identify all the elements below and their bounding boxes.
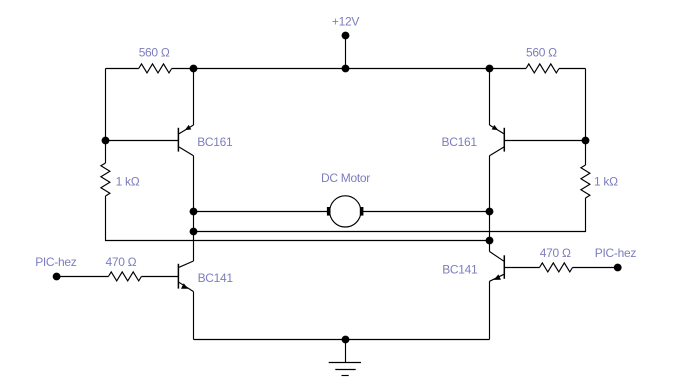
wire top rail right segment — [559, 68, 586, 70]
svg-text:BC161: BC161 — [442, 135, 478, 149]
junction top rail left (Q1 emitter node) — [190, 65, 197, 72]
junction y231 left — [190, 228, 197, 235]
wire cross line y240 to right motor node — [194, 240, 490, 242]
resistor R3 1 kohm (left, vertical) — [101, 163, 140, 196]
resistor R5 470 ohm (bottom-left) — [106, 255, 142, 281]
wire cross line y231 to left motor node — [194, 231, 490, 233]
junction node left base — [102, 137, 109, 144]
+12V supply terminal — [332, 15, 359, 39]
wire left column to R3 — [105, 141, 107, 164]
svg-text:BC141: BC141 — [198, 271, 234, 285]
junction top rail right (Q2 emitter node) — [486, 65, 493, 72]
wire +12V stub — [345, 36, 347, 69]
wire left column below R3 — [106, 196, 194, 241]
wire PIC-hez right to R6 — [573, 267, 618, 269]
wire right column to R4 — [585, 141, 587, 166]
svg-text:PIC-hez: PIC-hez — [35, 255, 77, 269]
svg-text:470 Ω: 470 Ω — [106, 255, 137, 269]
svg-text:BC161: BC161 — [197, 135, 233, 149]
svg-text:+12V: +12V — [332, 15, 359, 29]
wire right mid vertical (motor node to Q4 collector) — [489, 212, 491, 252]
resistor R2 560 ohm (top-right) — [526, 46, 559, 73]
wire right column upper — [585, 69, 587, 141]
resistor R1 560 ohm (top-left) — [139, 46, 172, 73]
ground — [329, 340, 361, 376]
junction bottom rail at ground — [342, 336, 349, 343]
svg-text:560 Ω: 560 Ω — [139, 46, 170, 60]
wire R6 to Q4 base — [504, 267, 539, 269]
wire left column upper — [105, 69, 107, 141]
svg-text:BC141: BC141 — [442, 263, 478, 277]
svg-text:1 kΩ: 1 kΩ — [116, 174, 140, 188]
junction on top rail at +12V — [342, 65, 349, 72]
junction motor line right — [486, 208, 493, 215]
wire bottom rail — [194, 339, 490, 341]
DC motor M1 — [194, 171, 490, 227]
junction y240 right — [486, 237, 493, 244]
transistor Q3 BC141 (NPN bottom-left) — [178, 261, 233, 340]
junction motor line left — [190, 208, 197, 215]
wire PIC-hez left to R5 — [57, 276, 109, 278]
terminal PIC-hez right — [595, 246, 637, 271]
wire left mid vertical (motor node to Q3 collector) — [193, 212, 195, 262]
transistor Q4 BC141 (NPN bottom-right) — [442, 252, 504, 340]
resistor R6 470 ohm (bottom-right) — [540, 246, 573, 272]
wire R5 to Q3 base — [141, 276, 178, 278]
wire right column below R4 — [490, 198, 586, 232]
svg-text:1 kΩ: 1 kΩ — [594, 174, 618, 188]
svg-text:470 Ω: 470 Ω — [540, 246, 571, 260]
transistor Q1 BC161 (PNP top-left) — [106, 69, 234, 212]
wire top rail left segment — [106, 68, 139, 70]
terminal PIC-hez left — [35, 255, 77, 280]
svg-text:560 Ω: 560 Ω — [526, 46, 557, 60]
wire top rail middle segment — [172, 68, 526, 70]
junction node right base — [582, 137, 589, 144]
svg-text:PIC-hez: PIC-hez — [595, 246, 637, 260]
resistor R4 1 kohm (right, vertical) — [581, 165, 618, 198]
transistor Q2 BC161 (PNP top-right) — [442, 69, 586, 212]
svg-text:DC Motor: DC Motor — [321, 171, 370, 185]
